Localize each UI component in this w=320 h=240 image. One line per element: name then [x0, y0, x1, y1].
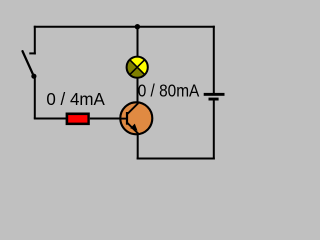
- switch SW1 blade (open): [23, 51, 34, 76]
- wire resistor to transistor base: [90, 118, 121, 120]
- wire lamp to transistor collector: [137, 77, 139, 104]
- emitter arrow: [130, 124, 137, 131]
- transistor Q1: [120, 102, 153, 134]
- switch SW1 pivot dot: [31, 74, 36, 79]
- wire right branch upper (top wire to battery plus): [213, 26, 215, 94]
- svg-text:0 / 80mA: 0 / 80mA: [138, 81, 200, 100]
- wire left branch lower (switch pivot to resistor row): [34, 76, 36, 119]
- base bar: [126, 112, 128, 125]
- svg-text:0 / 4mA: 0 / 4mA: [46, 89, 105, 109]
- wire left branch upper (top wire to switch contact): [34, 26, 36, 55]
- wire transistor emitter down: [137, 133, 139, 160]
- node junction dot top (lamp branch tee): [135, 24, 140, 29]
- label ammeter 0 / 80mA: [138, 81, 200, 100]
- emitter line: [127, 123, 138, 134]
- battery B1 positive plate: [204, 93, 225, 96]
- wire resistor row left (corner to resistor): [34, 118, 67, 120]
- wire right branch lower (battery minus to bottom wire): [213, 100, 215, 160]
- collector line: [127, 103, 138, 114]
- wire bottom horizontal (emitter to battery): [137, 158, 215, 160]
- switch SW1 fixed contact tick: [29, 52, 36, 54]
- resistor R1: [66, 113, 90, 126]
- wire middle branch upper (top wire to lamp): [137, 26, 139, 57]
- lamp L1: [127, 57, 148, 78]
- wire top horizontal (switch to battery): [34, 26, 215, 28]
- base lead inside: [120, 118, 127, 120]
- battery B1 negative plate: [209, 98, 219, 101]
- label ammeter 0 / 4mA: [46, 89, 105, 109]
